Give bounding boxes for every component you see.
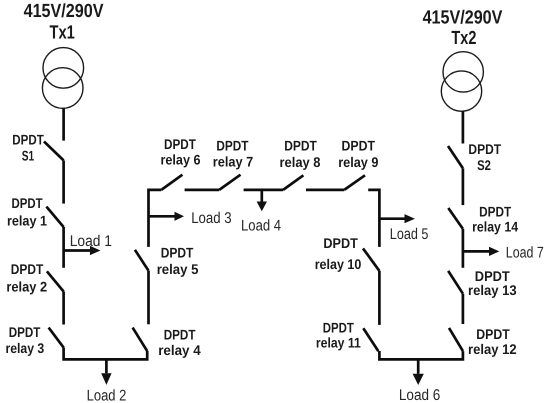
svg-text:relay 11: relay 11 xyxy=(316,335,361,351)
svg-text:DPDT: DPDT xyxy=(479,204,511,220)
svg-text:Load 7: Load 7 xyxy=(506,245,544,262)
svg-text:relay 8: relay 8 xyxy=(280,154,321,170)
svg-text:relay 7: relay 7 xyxy=(213,154,254,170)
svg-text:Load 3: Load 3 xyxy=(191,210,231,227)
svg-text:Load 2: Load 2 xyxy=(87,387,127,403)
svg-text:DPDT: DPDT xyxy=(284,138,317,154)
svg-text:relay 2: relay 2 xyxy=(6,278,47,294)
svg-text:DPDT: DPDT xyxy=(323,235,358,251)
svg-text:DPDT: DPDT xyxy=(342,138,376,154)
svg-text:415V/290V: 415V/290V xyxy=(423,8,503,29)
svg-text:DPDT: DPDT xyxy=(9,324,41,340)
svg-text:Load 6: Load 6 xyxy=(399,387,440,403)
svg-text:DPDT: DPDT xyxy=(468,141,501,157)
svg-text:DPDT: DPDT xyxy=(11,261,44,277)
svg-text:Tx1: Tx1 xyxy=(50,22,76,43)
svg-text:relay 12: relay 12 xyxy=(468,341,517,357)
svg-text:relay 1: relay 1 xyxy=(7,213,47,229)
svg-text:DPDT: DPDT xyxy=(12,195,43,211)
svg-text:Load 4: Load 4 xyxy=(241,217,281,234)
svg-text:relay 5: relay 5 xyxy=(157,261,199,277)
svg-text:S2: S2 xyxy=(477,157,491,173)
svg-text:DPDT: DPDT xyxy=(216,138,248,154)
svg-text:Load 5: Load 5 xyxy=(390,226,429,243)
svg-text:DPDT: DPDT xyxy=(12,131,44,147)
svg-text:relay 10: relay 10 xyxy=(315,256,362,272)
svg-text:relay 6: relay 6 xyxy=(161,152,201,168)
svg-text:relay 3: relay 3 xyxy=(6,340,45,356)
svg-text:relay 14: relay 14 xyxy=(472,219,518,235)
svg-text:relay 9: relay 9 xyxy=(338,154,378,170)
svg-text:Load 1: Load 1 xyxy=(70,233,112,250)
svg-text:415V/290V: 415V/290V xyxy=(24,1,104,22)
svg-text:Tx2: Tx2 xyxy=(451,28,476,49)
svg-text:relay 4: relay 4 xyxy=(158,342,201,358)
svg-text:DPDT: DPDT xyxy=(323,320,354,336)
svg-text:DPDT: DPDT xyxy=(164,136,196,152)
svg-text:S1: S1 xyxy=(22,148,35,164)
svg-text:DPDT: DPDT xyxy=(161,245,194,261)
svg-text:relay 13: relay 13 xyxy=(468,282,517,298)
svg-text:DPDT: DPDT xyxy=(164,327,196,343)
svg-text:DPDT: DPDT xyxy=(476,326,510,342)
